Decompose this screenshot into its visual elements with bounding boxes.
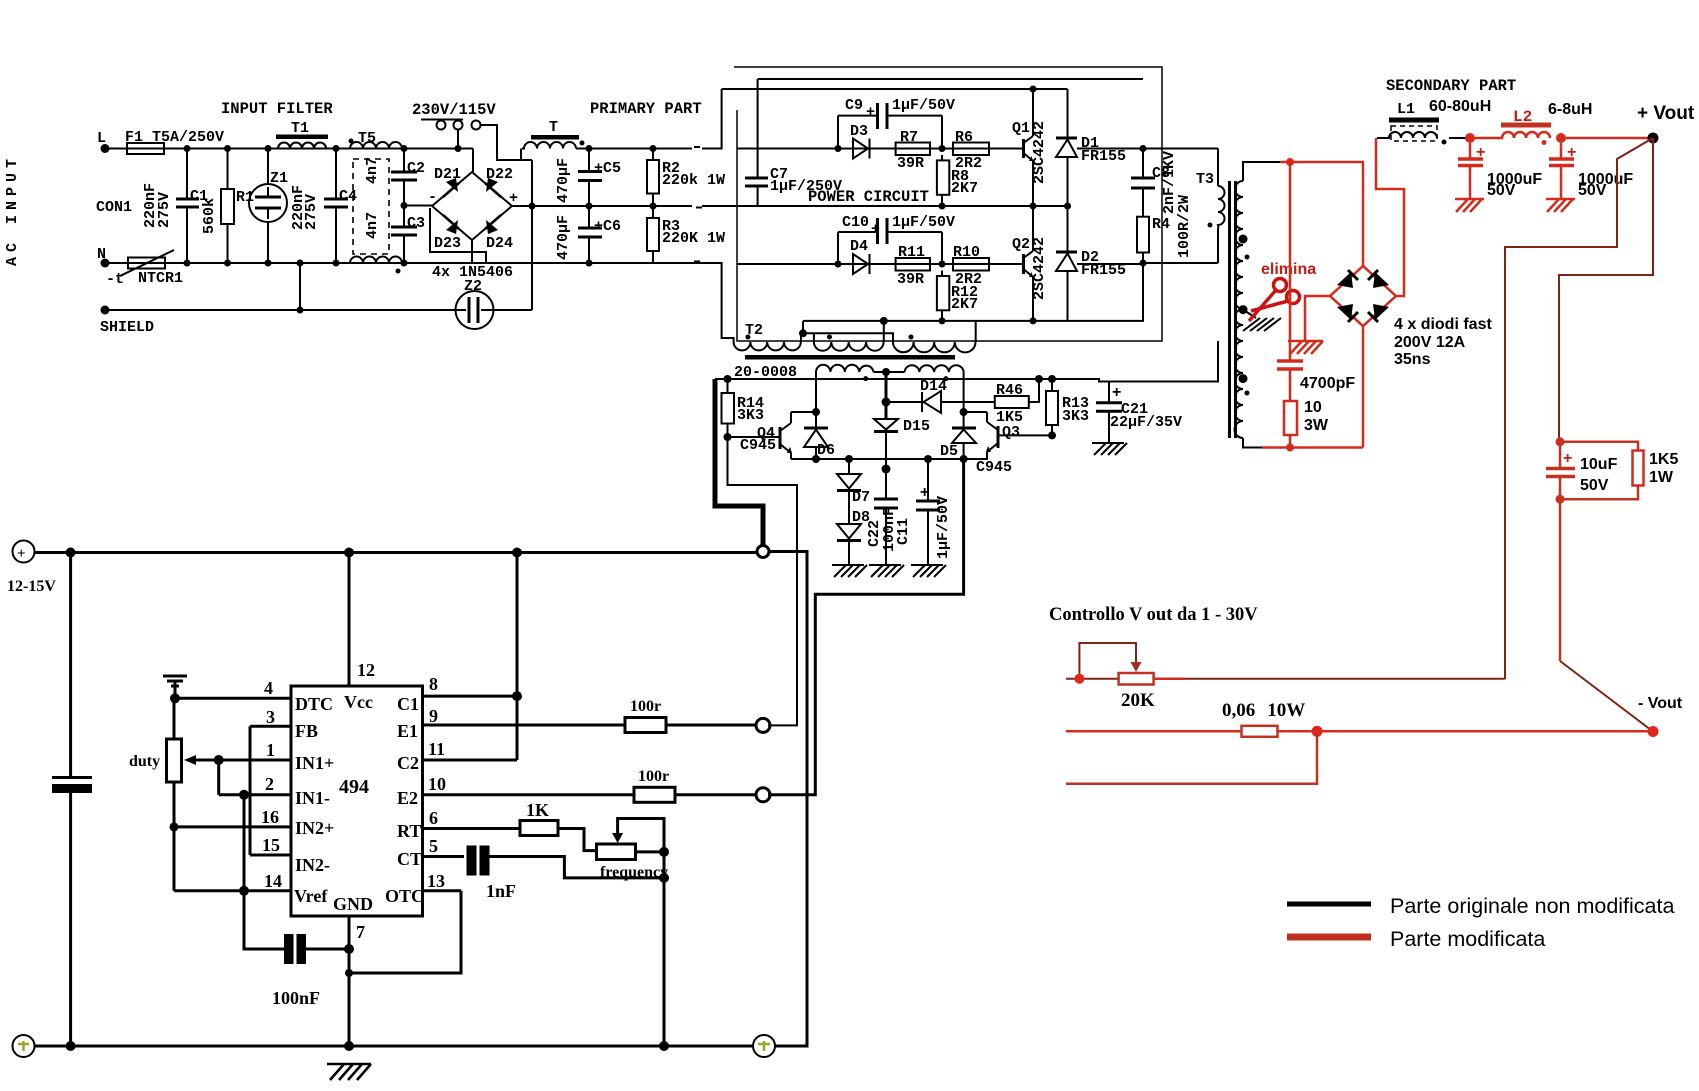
svg-text:E2: E2 xyxy=(397,788,418,808)
wire Vref branch xyxy=(244,795,284,949)
svg-text:+: + xyxy=(1112,384,1121,401)
svg-text:C2: C2 xyxy=(407,160,425,177)
wire left supply drop xyxy=(69,553,72,1047)
terminal N xyxy=(97,246,110,268)
svg-text:C3: C3 xyxy=(407,215,425,232)
ground DTC xyxy=(163,676,187,703)
wire -Vout rail xyxy=(1066,730,1653,733)
resistor 100r E2 xyxy=(634,768,756,802)
label 4 x diodi fast xyxy=(1394,316,1492,368)
svg-text:Q2: Q2 xyxy=(1012,236,1030,253)
wire driver rail xyxy=(715,341,1218,382)
transistor Q1 2SC4242 xyxy=(989,86,1048,210)
svg-text:+C6: +C6 xyxy=(594,218,621,235)
wire L rail xyxy=(105,148,473,150)
pin 8 C1 xyxy=(397,674,522,714)
svg-text:275V: 275V xyxy=(303,194,320,230)
capacitor C3 xyxy=(391,206,425,267)
transformer T2 label xyxy=(745,322,763,339)
svg-text:R46: R46 xyxy=(996,382,1023,399)
wire bottom rail primary xyxy=(653,263,734,342)
svg-text:CT: CT xyxy=(397,849,422,869)
svg-text:60-80uH: 60-80uH xyxy=(1429,98,1491,115)
diode D15 xyxy=(874,398,930,474)
wire center tap drop xyxy=(885,372,888,419)
wire emitter bottom rail xyxy=(803,263,1143,321)
svg-text:SHIELD: SHIELD xyxy=(100,319,154,336)
svg-text:IN1+: IN1+ xyxy=(295,753,334,773)
svg-text:INPUT FILTER: INPUT FILTER xyxy=(221,100,333,118)
capacitor Z2 xyxy=(456,278,494,329)
svg-text:+ Vout: + Vout xyxy=(1637,103,1695,124)
transformer T2 core xyxy=(745,355,955,360)
svg-text:AC INPUT: AC INPUT xyxy=(4,154,21,266)
svg-text:10: 10 xyxy=(428,774,446,794)
resistor R4 100R/2W xyxy=(1137,195,1193,267)
resistor R13 3K3 xyxy=(1046,375,1089,439)
svg-text:T3: T3 xyxy=(1196,171,1214,188)
svg-text:D4: D4 xyxy=(850,238,868,255)
pin 5 CT xyxy=(397,836,464,869)
diode D2 FR155 xyxy=(1056,206,1126,321)
svg-text:10: 10 xyxy=(1304,399,1322,416)
label GND xyxy=(333,894,373,914)
terminal -Vout xyxy=(1638,695,1683,737)
svg-text:275V: 275V xyxy=(156,192,173,228)
capacitor supply electrolytic xyxy=(52,778,92,794)
wire thick Vcc feed xyxy=(715,379,763,547)
legend red sample xyxy=(1287,927,1545,951)
svg-text:13: 13 xyxy=(427,871,445,891)
resistor R1 560k xyxy=(201,145,254,267)
wire mid rail power xyxy=(758,205,1068,207)
varistor Z1 xyxy=(249,145,288,267)
diode D8 xyxy=(837,491,870,566)
label CON1 xyxy=(96,199,132,216)
svg-text:D22: D22 xyxy=(486,166,513,183)
svg-text:22µF/35V: 22µF/35V xyxy=(1110,414,1182,431)
label PRIMARY PART xyxy=(590,100,702,118)
wire N rail xyxy=(105,262,722,264)
svg-text:D24: D24 xyxy=(486,235,513,252)
pin 16 IN2+ xyxy=(174,807,334,838)
ground red cap2 xyxy=(1546,199,1575,212)
svg-text:7: 7 xyxy=(356,922,365,942)
resistor 10 3W xyxy=(1284,399,1329,452)
terminal ground left xyxy=(13,1035,35,1057)
svg-text:1µF/50V: 1µF/50V xyxy=(892,214,955,231)
transformer T primary xyxy=(522,119,585,149)
svg-text:Z1: Z1 xyxy=(270,170,288,187)
svg-text:NTCR1: NTCR1 xyxy=(138,270,183,287)
svg-text:4 x diodi fast: 4 x diodi fast xyxy=(1394,316,1492,333)
capacitor C9 1uF/50V xyxy=(835,97,956,152)
svg-text:IN2-: IN2- xyxy=(295,855,330,875)
wire red to bridge top xyxy=(1362,162,1365,268)
transistor Q2 2SC4242 xyxy=(989,206,1048,324)
capacitor C7 1uF/250V xyxy=(745,79,842,206)
ground C21 xyxy=(1092,443,1127,455)
label POWER CIRCUIT xyxy=(808,188,929,206)
svg-text:D7: D7 xyxy=(852,489,870,506)
thermistor NTCR1 xyxy=(106,250,183,288)
diode D5 xyxy=(940,412,976,463)
capacitor C21 22uF/35V xyxy=(1096,382,1182,444)
wire sec2 right drop xyxy=(963,372,965,412)
svg-text:1W: 1W xyxy=(1649,469,1674,486)
capacitor 100nF xyxy=(272,934,354,1008)
svg-text:494: 494 xyxy=(339,776,369,798)
wire row2 to T3 xyxy=(1143,262,1218,264)
wire bleeder feed xyxy=(1559,138,1653,442)
svg-text:12: 12 xyxy=(357,660,375,680)
resistor R3 220K 1W xyxy=(647,206,725,263)
resistor 100r E1 xyxy=(625,698,756,733)
wire bridge left to ground xyxy=(1305,296,1330,340)
wire right edge loop xyxy=(770,552,807,1047)
ground red cap1 xyxy=(1455,199,1484,212)
wire upper feed rail xyxy=(758,78,1143,80)
wire L to bridge top xyxy=(472,149,474,173)
wire sense return loop xyxy=(1066,731,1317,784)
wire Q4 collector node xyxy=(791,411,816,413)
resistor 0,06 10W xyxy=(1242,726,1323,737)
svg-text:50V: 50V xyxy=(1580,477,1609,494)
svg-text:FR155: FR155 xyxy=(1081,148,1126,165)
svg-text:DTC: DTC xyxy=(295,694,333,714)
svg-text:GND: GND xyxy=(333,894,373,914)
label INPUT FILTER xyxy=(221,100,333,118)
wire center tap stub xyxy=(1243,310,1256,318)
svg-text:L1: L1 xyxy=(1397,101,1415,118)
wire bridge right to L1 xyxy=(1376,138,1404,296)
resistor 1K xyxy=(520,800,558,836)
svg-text:R7: R7 xyxy=(900,129,918,146)
svg-text:Controllo V out da 1 - 30V: Controllo V out da 1 - 30V xyxy=(1049,605,1258,625)
svg-text:C9: C9 xyxy=(845,97,863,114)
svg-text:15: 15 xyxy=(262,835,280,855)
bridge 4 x diodi fast xyxy=(1330,266,1396,326)
potentiometer 20K xyxy=(1074,643,1155,711)
wire drive row 2 xyxy=(737,263,989,265)
svg-text:OTC: OTC xyxy=(385,886,424,906)
svg-text:D23: D23 xyxy=(434,235,461,252)
svg-text:39R: 39R xyxy=(897,155,924,172)
svg-text:C945: C945 xyxy=(740,437,776,454)
wire bleeder to -Vout xyxy=(1559,499,1562,661)
capacitor 4700pF xyxy=(1277,158,1355,401)
svg-text:1K5: 1K5 xyxy=(1649,451,1678,468)
svg-text:D21: D21 xyxy=(434,166,461,183)
pin 10 E2 xyxy=(397,774,634,808)
svg-text:-t: -t xyxy=(106,271,124,288)
pin 13 OTC xyxy=(385,871,461,906)
svg-text:5: 5 xyxy=(429,836,438,856)
potentiometer frequency xyxy=(597,819,670,882)
svg-text:+C5: +C5 xyxy=(594,160,621,177)
resistor R7 39R xyxy=(896,129,946,172)
terminal ground right xyxy=(753,1035,775,1057)
svg-text:12-15V: 12-15V xyxy=(7,578,56,595)
svg-text:9: 9 xyxy=(429,706,438,726)
transistor Q3 C945 xyxy=(976,412,1052,476)
svg-text:4: 4 xyxy=(264,678,273,698)
capacitor C11 1uF/50V xyxy=(895,455,952,565)
scissors icon xyxy=(1249,279,1300,322)
wire row1 to T3 xyxy=(1077,148,1218,150)
resistor R46 1K5 xyxy=(995,375,1043,426)
svg-text:C945: C945 xyxy=(976,459,1012,476)
svg-text:100r: 100r xyxy=(630,698,661,715)
diode D14 xyxy=(886,378,995,413)
ground D8 xyxy=(832,565,867,577)
svg-text:IN1-: IN1- xyxy=(295,788,330,808)
wire 1K to pot xyxy=(558,829,597,851)
svg-text:50V: 50V xyxy=(1578,182,1607,199)
choke T5 xyxy=(349,130,403,274)
svg-text:16: 16 xyxy=(261,807,279,827)
svg-text:Q1: Q1 xyxy=(1012,120,1030,137)
capacitor C5 470uF xyxy=(555,145,621,210)
wire N-shield tie xyxy=(299,263,301,310)
potentiometer duty xyxy=(129,698,224,891)
svg-text:1K: 1K xyxy=(526,800,549,820)
wire T2 winding links xyxy=(801,321,976,342)
svg-text:+: + xyxy=(871,221,880,238)
label elimina xyxy=(1261,261,1316,278)
label AC INPUT xyxy=(4,154,21,266)
pin 12 Vcc xyxy=(344,553,375,713)
wire top rail primary xyxy=(576,89,722,149)
svg-text:2SC4242: 2SC4242 xyxy=(1031,121,1048,184)
resistor R6 2R2 xyxy=(953,129,989,172)
wire bridge bottom xyxy=(1362,326,1365,448)
pin 7 GND xyxy=(349,916,365,1046)
svg-text:1: 1 xyxy=(266,740,275,760)
svg-text:+: + xyxy=(920,484,929,501)
svg-text:220k 1W: 220k 1W xyxy=(662,172,725,189)
svg-text:D5: D5 xyxy=(940,443,958,460)
inductor L2 6-8uH xyxy=(1475,101,1592,145)
svg-text:4700pF: 4700pF xyxy=(1300,375,1355,392)
wire sec1 left drop xyxy=(815,372,817,412)
wire E2 riser xyxy=(768,459,964,795)
wire SHIELD xyxy=(105,309,456,311)
svg-text:PRIMARY PART: PRIMARY PART xyxy=(590,100,702,118)
svg-text:3W: 3W xyxy=(1304,417,1329,434)
svg-text:R6: R6 xyxy=(955,129,973,146)
diode D1 FR155 xyxy=(1056,89,1126,210)
bridge rectifier D21 D22 D23 D24 xyxy=(428,166,518,281)
svg-text:CON1: CON1 xyxy=(96,199,132,216)
wire switch to T feed xyxy=(481,125,532,160)
svg-text:C11: C11 xyxy=(895,518,912,545)
wire second feed rail xyxy=(722,88,1068,90)
svg-text:T: T xyxy=(549,119,558,136)
svg-text:+: + xyxy=(1567,144,1576,161)
svg-text:3K3: 3K3 xyxy=(1062,408,1089,425)
svg-text:100nF: 100nF xyxy=(272,988,320,1008)
wire secondary top red xyxy=(1280,161,1364,164)
svg-text:10uF: 10uF xyxy=(1580,456,1618,473)
transformer T2 secondary windings xyxy=(816,365,964,381)
wire feedback diagonal xyxy=(1505,138,1653,679)
capacitor 1000uF 50V first xyxy=(1458,143,1542,199)
resistor 1K5 1W bleeder xyxy=(1560,442,1678,499)
wire L1 to node xyxy=(1449,137,1466,139)
wire Q3 collector node xyxy=(964,411,987,413)
wire Vcc top rail xyxy=(35,551,758,554)
svg-text:C2: C2 xyxy=(397,753,419,773)
capacitor 10uF 50V xyxy=(1546,437,1618,503)
pin 6 RT xyxy=(397,808,520,841)
resistor R8 2K7 xyxy=(937,155,978,210)
svg-text:2K7: 2K7 xyxy=(951,180,978,197)
label SECONDARY PART xyxy=(1386,77,1516,95)
inductor T1 xyxy=(276,120,328,149)
wire bottom rail xyxy=(35,1045,753,1048)
svg-text:560k: 560k xyxy=(201,198,218,234)
wire CT link xyxy=(490,857,665,878)
label Controllo V out xyxy=(1049,605,1258,625)
wire C1 to C2 xyxy=(516,553,519,761)
resistor R2 220k 1W xyxy=(647,145,725,210)
svg-text:+: + xyxy=(1476,144,1485,161)
diode D7 xyxy=(837,455,870,506)
legend black sample xyxy=(1287,894,1674,918)
label 494 xyxy=(339,776,369,798)
svg-text:RT: RT xyxy=(397,821,421,841)
label 0,06 10W xyxy=(1222,700,1305,721)
svg-text:470µF: 470µF xyxy=(555,158,572,203)
svg-text:3K3: 3K3 xyxy=(737,407,764,424)
svg-text:Q3: Q3 xyxy=(1002,424,1020,441)
capacitor 1nF xyxy=(467,846,517,902)
svg-text:1µF/50V: 1µF/50V xyxy=(935,496,952,559)
terminal +Vout xyxy=(1637,103,1695,144)
pin 2 IN1- xyxy=(219,774,330,808)
resistor R10 2R2 xyxy=(953,244,989,288)
wire freq to CT and ground xyxy=(663,852,666,1046)
resistor R14 3K3 xyxy=(722,375,765,441)
IC U1 TL494 box xyxy=(291,686,423,916)
svg-text:duty: duty xyxy=(129,753,160,770)
capacitor C6 470uF xyxy=(555,206,621,267)
svg-text:IN2+: IN2+ xyxy=(295,818,334,838)
capacitor C2 xyxy=(391,145,425,209)
ground C22 xyxy=(869,565,904,577)
transformer T2 primary windings xyxy=(734,335,976,353)
wire bridge bottom to N xyxy=(471,240,473,263)
svg-text:SECONDARY PART: SECONDARY PART xyxy=(1386,77,1516,95)
wire Q4 base to E1 loop xyxy=(728,437,798,725)
terminal E2 xyxy=(756,788,770,802)
svg-text:35ns: 35ns xyxy=(1394,351,1431,368)
svg-text:FB: FB xyxy=(295,721,318,741)
svg-text:6-8uH: 6-8uH xyxy=(1548,101,1592,118)
ground center tap xyxy=(1243,318,1281,331)
wire drive row 1 xyxy=(737,148,989,150)
svg-text:R11: R11 xyxy=(898,244,925,261)
label 20-0008 xyxy=(734,364,797,381)
svg-text:-: - xyxy=(428,189,437,206)
wire gap dashes xyxy=(694,147,702,262)
svg-text:1nF: 1nF xyxy=(486,881,516,901)
diode D6 xyxy=(804,412,835,463)
svg-text:Parte originale non modificata: Parte originale non modificata xyxy=(1390,894,1674,918)
wire 20K feedback line xyxy=(1066,678,1505,680)
junction dots shield xyxy=(297,260,304,267)
svg-text:100R/2W: 100R/2W xyxy=(1176,195,1193,258)
fuse F1 xyxy=(122,129,224,154)
wire to +Vout xyxy=(1566,137,1653,140)
svg-text:+: + xyxy=(866,104,875,121)
svg-text:+: + xyxy=(509,190,518,207)
svg-text:4n7: 4n7 xyxy=(364,157,381,184)
terminal SHIELD xyxy=(100,306,154,337)
wire mid rail primary xyxy=(532,205,758,207)
terminal +12V xyxy=(7,541,56,596)
svg-text:- Vout: - Vout xyxy=(1638,695,1683,712)
svg-text:220K 1W: 220K 1W xyxy=(662,230,725,247)
svg-text:T1: T1 xyxy=(291,120,309,137)
svg-text:4n7: 4n7 xyxy=(364,212,381,239)
svg-text:1µF/50V: 1µF/50V xyxy=(892,97,955,114)
svg-text:11: 11 xyxy=(428,739,445,759)
node red dot 2 xyxy=(1556,133,1566,143)
svg-text:20K: 20K xyxy=(1121,690,1155,711)
capacitor C22 100nF xyxy=(866,469,898,565)
wire bridge minus return xyxy=(404,206,486,264)
junction dots rails xyxy=(66,548,76,558)
svg-text:14: 14 xyxy=(264,871,282,891)
svg-text:470µF: 470µF xyxy=(555,215,572,260)
wire emitter rail driver xyxy=(791,458,988,460)
terminal L xyxy=(97,130,110,153)
wire FB to IN2- xyxy=(249,726,252,855)
transistor Q4 C945 xyxy=(728,412,793,459)
svg-text:100r: 100r xyxy=(638,768,669,785)
diode D3 xyxy=(850,123,870,159)
svg-text:Parte modificata: Parte modificata xyxy=(1390,927,1545,951)
svg-text:3: 3 xyxy=(266,707,275,727)
capacitor C8 2nF/1KV xyxy=(1131,145,1178,217)
switch 230V/115V xyxy=(412,101,496,152)
wire wiper to IN1- xyxy=(217,760,220,795)
terminal out Vcc circle xyxy=(757,546,769,558)
wire bottom return xyxy=(1243,438,1264,448)
capacitor C1 xyxy=(142,145,208,267)
svg-text:+: + xyxy=(17,546,26,562)
pin 3 FB xyxy=(250,707,318,741)
ground main xyxy=(327,1064,371,1080)
wire D2 to T3 lower xyxy=(1077,263,1143,265)
svg-text:2K7: 2K7 xyxy=(951,296,978,313)
node red dot 1 xyxy=(1465,133,1475,143)
resistor R12 2K7 xyxy=(937,271,978,325)
svg-text:frequency: frequency xyxy=(600,864,668,881)
ground red bridge xyxy=(1288,341,1323,354)
svg-text:D14: D14 xyxy=(920,378,947,395)
capacitor C10 1uF/50V xyxy=(835,214,956,268)
svg-text:R1: R1 xyxy=(236,189,254,206)
svg-text:230V/115V: 230V/115V xyxy=(412,101,496,119)
svg-text:39R: 39R xyxy=(897,271,924,288)
pin 14 Vref xyxy=(174,871,328,906)
svg-text:2: 2 xyxy=(265,774,274,794)
pin 1 IN1+ xyxy=(219,740,335,773)
svg-text:C4: C4 xyxy=(339,188,357,205)
